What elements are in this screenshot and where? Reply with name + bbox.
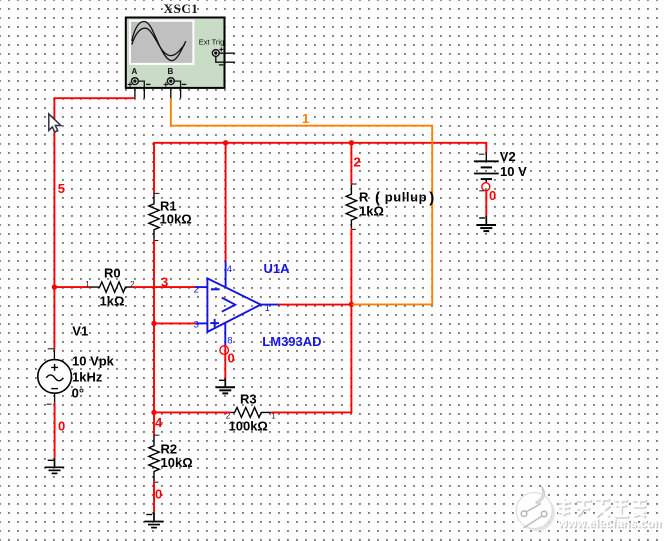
pin 1 tick of R1 [154,192,160,194]
svg-text:100kΩ: 100kΩ [229,419,268,434]
resistor R0 [90,282,132,292]
svg-text:3: 3 [194,319,199,330]
svg-text:XSC1: XSC1 [164,1,199,16]
junction V+ / pullup [349,140,354,145]
wire node 5: scope A stub (black) [134,88,136,98]
wire V1- to ground (red) [54,403,56,459]
ground (V2) [477,216,496,231]
junction node 4 / R3 [151,410,156,415]
wire scope B unused minus stub [180,88,182,98]
svg-text:10 V: 10 V [500,164,527,179]
pin 1 tick of R pullup [351,183,357,185]
wire node 5: scope A to V1+ (red) [54,98,134,349]
svg-text:8: 8 [227,335,232,346]
svg-text:www.elecfans.com: www.elecfans.com [557,516,664,530]
svg-text:Ext Trig: Ext Trig [199,38,224,47]
wire node 3: R0 to U1A pin 2 (red) [132,286,196,288]
svg-text:1: 1 [85,280,90,289]
wire scope A unused minus stub [143,88,145,98]
svg-text:0: 0 [489,188,496,203]
resistor R3 [231,407,271,417]
svg-text:1kΩ: 1kΩ [359,204,384,219]
scope Ext Trig terminal [199,38,235,65]
svg-text:LM393AD: LM393AD [262,334,321,349]
svg-text:1: 1 [265,303,270,314]
svg-text:V2: V2 [500,149,516,164]
source V1 [38,349,72,404]
svg-text:1: 1 [302,111,309,126]
junction node 4 / pin 3 [151,321,156,326]
wire R3 to node 4 (red) [154,411,231,413]
svg-text:0°: 0° [72,385,84,400]
mouse cursor [49,114,61,132]
wire node 4 to U1A pin 3 (red) [154,322,196,324]
watermark logo (elecfans) [516,486,555,531]
pin 1 tick of R2 [154,434,160,436]
junction node 5 / R0 [52,284,57,289]
junction node 1 / pullup / R3 [349,302,354,307]
svg-text:4: 4 [155,415,163,430]
pin 2 tick of R pullup [351,228,356,230]
wire R2 to ground (red) [153,481,155,512]
svg-text:R0: R0 [104,266,121,281]
svg-text:0: 0 [228,351,235,366]
wire V+ bus: R1 top / pin4 / pullup / V2+ (red) [154,143,486,194]
resistor R pullup [346,185,356,229]
node 0 marker at V2- [482,183,490,191]
wire node 5 to R0 pin1 (red) [54,286,90,288]
wire V2- to ground (red) [485,190,487,216]
oscilloscope XSC1 [126,18,225,88]
ground (R2) [144,512,163,527]
ground (U1A) [216,378,235,393]
svg-text:4: 4 [227,264,232,275]
wire node 1: U1A output to pullup junction (red) [279,304,351,306]
svg-text:10kΩ: 10kΩ [160,212,192,227]
svg-text:R3: R3 [240,392,257,407]
wire scope B stub (black) [170,88,172,98]
wire V+ to pullup top (red) [350,143,352,185]
svg-text:1kΩ: 1kΩ [100,293,125,308]
wire node 1: junction down to R3 (red) [271,304,352,412]
svg-text:1kHz: 1kHz [72,369,103,384]
svg-text:V1: V1 [72,323,88,338]
battery V2 [474,153,499,191]
svg-text:3: 3 [161,274,168,289]
wire pullup bottom to node 1 (red) [350,228,352,304]
pin 2 tick of R1 [154,240,159,242]
node 0 marker at pin 8 [220,346,229,355]
svg-text:U1A: U1A [264,261,291,276]
svg-text:10 Vpk: 10 Vpk [72,353,115,368]
wire V+ bus to pin 4 (red) [225,143,227,261]
svg-text:A: A [132,67,138,76]
ground (V1) [45,458,64,473]
watermark chinese characters [557,497,647,517]
scope channel B terminal [164,67,187,88]
resistor R2 [149,436,159,481]
svg-text:B: B [168,67,174,76]
wire node 4 vertical: R1 bottom to R2 top (red) [153,239,155,436]
svg-text:0: 0 [58,419,65,434]
svg-text:5: 5 [58,181,65,196]
svg-text:2: 2 [354,155,361,170]
scope channel A terminal [128,67,151,88]
svg-text:1: 1 [271,411,276,420]
svg-text:10kΩ: 10kΩ [161,455,193,470]
wire node 1 orange: junction to scope B [171,98,432,304]
svg-text:0: 0 [155,487,162,502]
wire pin 8 to ground (red) [224,346,226,378]
resistor R1 [149,194,159,239]
junction V+ / pin 4 [223,140,228,145]
svg-text:2: 2 [194,285,199,296]
op-amp U1A [196,261,279,346]
pin 2 tick of R2 [154,481,159,483]
